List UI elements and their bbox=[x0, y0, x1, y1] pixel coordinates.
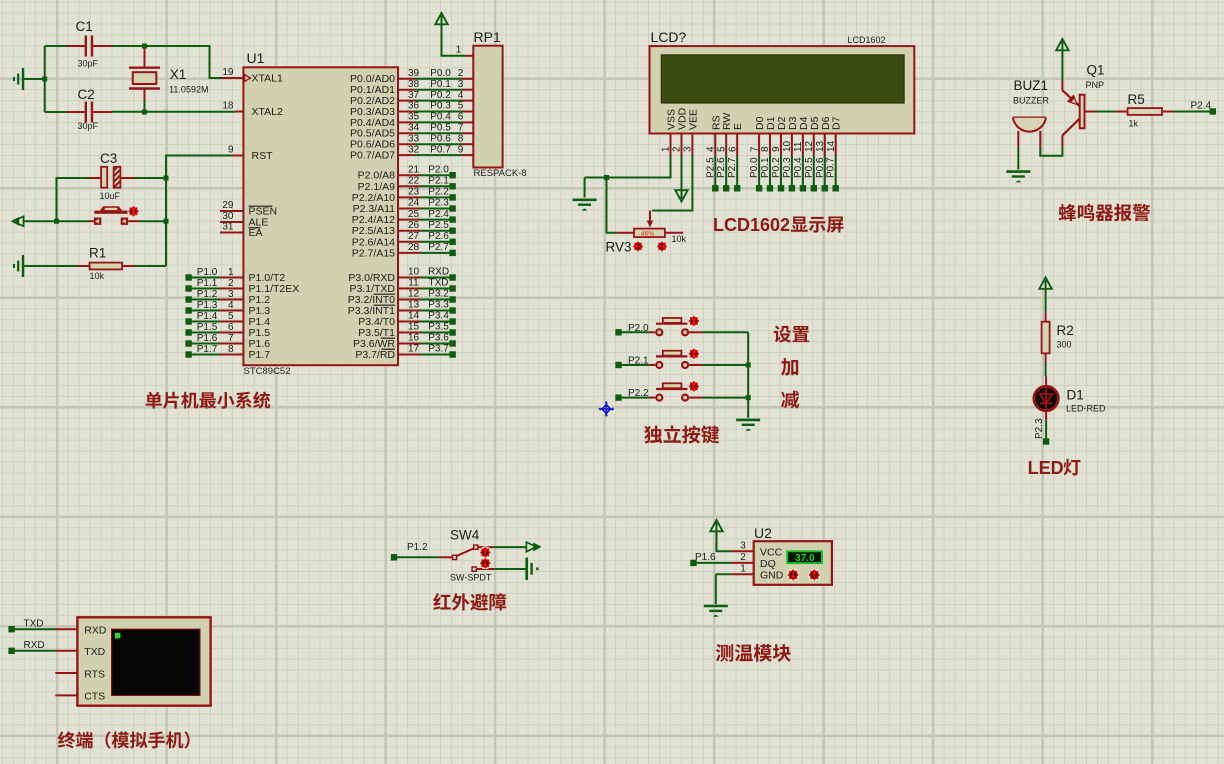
resistor R5 bbox=[1096, 92, 1173, 129]
svg-text:P1.6: P1.6 bbox=[197, 333, 218, 344]
pin 21 net P2.0 bbox=[398, 164, 456, 178]
svg-text:1: 1 bbox=[456, 45, 462, 56]
svg-text:Q1: Q1 bbox=[1087, 63, 1105, 78]
svg-text:DQ: DQ bbox=[760, 558, 776, 570]
svg-text:BUZ1: BUZ1 bbox=[1014, 78, 1049, 93]
caption 加 bbox=[781, 358, 798, 376]
svg-text:RXD: RXD bbox=[24, 640, 45, 651]
ground bbox=[14, 255, 78, 277]
node bbox=[42, 77, 47, 82]
svg-text:14: 14 bbox=[408, 311, 420, 322]
svg-text:P3.2: P3.2 bbox=[428, 289, 449, 300]
svg-text:16: 16 bbox=[408, 333, 420, 344]
LCD display LCD1602 bbox=[650, 29, 915, 156]
push button net P2.1 bbox=[615, 351, 702, 368]
svg-text:37.0: 37.0 bbox=[795, 553, 815, 564]
pin 7 net P1.6 bbox=[185, 333, 243, 347]
ground bbox=[14, 68, 45, 90]
wire bbox=[45, 45, 67, 47]
interactive star bbox=[689, 348, 700, 359]
svg-text:RTS: RTS bbox=[84, 669, 105, 681]
buzzer BUZ1 bbox=[1013, 78, 1050, 147]
svg-text:P1.2: P1.2 bbox=[197, 289, 218, 300]
svg-text:CTS: CTS bbox=[84, 691, 105, 703]
pin 22 net P2.1 bbox=[398, 176, 456, 190]
node bbox=[746, 395, 751, 400]
svg-text:2: 2 bbox=[740, 552, 746, 563]
svg-text:P2.2: P2.2 bbox=[428, 187, 449, 198]
capacitor C1 bbox=[67, 19, 112, 69]
interactive marks bbox=[633, 241, 667, 251]
svg-text:30: 30 bbox=[222, 211, 234, 222]
svg-text:P0.4: P0.4 bbox=[430, 112, 451, 123]
svg-text:27: 27 bbox=[408, 231, 420, 242]
push button net P2.2 bbox=[615, 383, 702, 401]
svg-text:30pF: 30pF bbox=[78, 59, 99, 69]
pin 3 VCC wire bbox=[732, 541, 754, 552]
switch SW4 SPDT bbox=[439, 528, 495, 583]
interactive star bbox=[128, 206, 139, 217]
wire net P2.6 bbox=[716, 156, 729, 192]
svg-text:300: 300 bbox=[1057, 340, 1072, 350]
svg-text:P2.7: P2.7 bbox=[727, 157, 738, 178]
wire bbox=[112, 45, 145, 47]
wire net P0.6 pin 33 to RP1 pin 8 bbox=[398, 133, 473, 144]
svg-text:C1: C1 bbox=[76, 19, 93, 34]
svg-text:P2.1: P2.1 bbox=[628, 356, 649, 367]
pin 31 bbox=[220, 222, 243, 233]
svg-text:C2: C2 bbox=[78, 87, 95, 102]
power bbox=[435, 13, 466, 56]
svg-text:10: 10 bbox=[782, 140, 793, 152]
svg-text:4: 4 bbox=[228, 300, 234, 311]
svg-text:P1.4: P1.4 bbox=[197, 311, 218, 322]
svg-text:P2.6: P2.6 bbox=[428, 231, 449, 242]
svg-text:25: 25 bbox=[408, 209, 420, 220]
svg-text:LCD1602: LCD1602 bbox=[713, 215, 790, 235]
svg-text:38: 38 bbox=[408, 79, 420, 90]
wire bbox=[145, 46, 222, 78]
pin 24 net P2.3 bbox=[398, 198, 456, 212]
interactive marks bbox=[480, 547, 491, 568]
svg-text:5: 5 bbox=[458, 101, 464, 112]
svg-text:3: 3 bbox=[458, 79, 464, 90]
ground bbox=[704, 574, 728, 617]
wire bbox=[703, 364, 749, 366]
wire net P0.0 bbox=[749, 156, 762, 192]
svg-text:P1.3: P1.3 bbox=[197, 300, 218, 311]
capacitor C2 bbox=[67, 87, 112, 131]
wire net P0.5 bbox=[804, 156, 817, 192]
svg-text:21: 21 bbox=[408, 164, 420, 175]
power bbox=[1056, 39, 1068, 80]
wire net P0.6 bbox=[815, 156, 828, 192]
resistor pack RP1 bbox=[473, 29, 526, 179]
svg-text:36: 36 bbox=[408, 101, 420, 112]
svg-text:LCD?: LCD? bbox=[651, 29, 687, 45]
svg-text:RV3: RV3 bbox=[606, 240, 632, 255]
ground bbox=[1006, 146, 1030, 182]
svg-text:P3.7/RD: P3.7/RD bbox=[355, 349, 395, 361]
wire net P2.5 bbox=[705, 156, 718, 192]
svg-text:P1.0: P1.0 bbox=[197, 267, 218, 278]
svg-text:LED: LED bbox=[1028, 458, 1064, 478]
svg-text:5: 5 bbox=[228, 311, 234, 322]
pin 17 net P3.7 bbox=[398, 344, 456, 358]
caption 蜂鸣器报警 bbox=[1059, 204, 1151, 221]
svg-text:8: 8 bbox=[458, 133, 464, 144]
svg-text:PNP: PNP bbox=[1086, 80, 1105, 90]
svg-text:VCC: VCC bbox=[760, 547, 783, 559]
svg-text:12: 12 bbox=[408, 289, 420, 300]
svg-text:P0.3: P0.3 bbox=[782, 157, 793, 178]
wire bbox=[166, 156, 232, 267]
svg-text:D7: D7 bbox=[831, 116, 843, 130]
svg-text:RST: RST bbox=[252, 150, 274, 162]
ground bbox=[573, 178, 597, 211]
wire net P0.3 pin 36 to RP1 pin 5 bbox=[398, 101, 473, 112]
svg-text:7: 7 bbox=[458, 123, 464, 134]
svg-text:P0.7: P0.7 bbox=[430, 144, 451, 155]
svg-text:2: 2 bbox=[228, 278, 234, 289]
svg-text:P2.7: P2.7 bbox=[428, 242, 449, 253]
terminal net P1.2 bbox=[391, 542, 439, 561]
ground bbox=[736, 420, 760, 431]
wire bbox=[135, 265, 166, 267]
pin 19 bbox=[221, 67, 243, 78]
svg-text:18: 18 bbox=[222, 101, 234, 112]
svg-text:P2.0: P2.0 bbox=[428, 164, 449, 175]
wire bbox=[140, 220, 166, 222]
svg-text:23: 23 bbox=[408, 187, 420, 198]
svg-text:11: 11 bbox=[408, 278, 419, 289]
svg-text:VEE: VEE bbox=[687, 109, 699, 130]
svg-text:P0.3: P0.3 bbox=[430, 101, 451, 112]
svg-text:46%: 46% bbox=[641, 231, 654, 238]
terminal arrow bbox=[11, 216, 24, 226]
svg-text:TXD: TXD bbox=[429, 278, 449, 289]
svg-text:P2.5: P2.5 bbox=[428, 220, 449, 231]
pin 27 net P2.6 bbox=[398, 231, 456, 245]
wire net P0.1 bbox=[760, 156, 773, 192]
wire net P0.2 pin 37 to RP1 pin 4 bbox=[398, 90, 473, 101]
resistor R2 bbox=[1042, 313, 1074, 362]
svg-text:BUZZER: BUZZER bbox=[1013, 96, 1050, 106]
node bbox=[142, 44, 147, 49]
svg-text:28: 28 bbox=[408, 242, 420, 253]
ground bbox=[527, 558, 538, 580]
svg-text:X1: X1 bbox=[170, 67, 187, 82]
pin 4 net P1.3 bbox=[185, 300, 243, 314]
pin 1 bbox=[456, 45, 474, 56]
svg-text:U1: U1 bbox=[247, 50, 265, 66]
wire bbox=[652, 156, 692, 211]
svg-text:8: 8 bbox=[760, 146, 771, 152]
svg-text:D1: D1 bbox=[1067, 388, 1084, 403]
svg-text:29: 29 bbox=[222, 200, 234, 211]
svg-text:1: 1 bbox=[740, 563, 746, 574]
svg-text:7: 7 bbox=[749, 146, 760, 152]
svg-text:11.0592M: 11.0592M bbox=[169, 85, 208, 95]
wire bbox=[57, 178, 90, 221]
wire bbox=[495, 568, 526, 570]
caption 设置 bbox=[774, 326, 809, 343]
wire net P2.7 bbox=[727, 156, 740, 192]
caption 单片机最小系统 bbox=[146, 392, 271, 409]
svg-text:R2: R2 bbox=[1057, 323, 1074, 338]
caption 减 bbox=[781, 391, 799, 409]
pin RTS stub bbox=[55, 672, 77, 674]
pin 8 net P1.7 bbox=[185, 344, 243, 358]
svg-text:EA: EA bbox=[249, 227, 263, 239]
svg-text:GND: GND bbox=[760, 570, 784, 582]
svg-text:P3.6: P3.6 bbox=[428, 333, 449, 344]
svg-text:4: 4 bbox=[706, 146, 717, 152]
svg-text:32: 32 bbox=[408, 144, 420, 155]
pin 15 net P3.5 bbox=[398, 322, 456, 336]
power bbox=[710, 520, 732, 551]
pin 23 net P2.2 bbox=[398, 187, 456, 201]
wire bbox=[494, 542, 542, 552]
wire net P2.4 bbox=[1173, 101, 1216, 115]
svg-text:P3.5: P3.5 bbox=[428, 322, 449, 333]
terminal net P1.6 bbox=[690, 552, 732, 566]
svg-text:C3: C3 bbox=[100, 151, 117, 166]
caption 独立按键 bbox=[644, 425, 719, 443]
svg-text:22: 22 bbox=[408, 176, 420, 187]
svg-text:10k: 10k bbox=[90, 271, 105, 281]
node bbox=[604, 175, 609, 180]
svg-text:37: 37 bbox=[408, 90, 420, 101]
pin 25 net P2.4 bbox=[398, 209, 456, 223]
svg-text:4: 4 bbox=[458, 90, 464, 101]
wire net P0.5 pin 34 to RP1 pin 7 bbox=[398, 123, 473, 134]
svg-text:P2.7/A15: P2.7/A15 bbox=[352, 247, 395, 259]
wire bbox=[703, 331, 749, 333]
svg-text:P0.0: P0.0 bbox=[430, 68, 451, 79]
svg-text:19: 19 bbox=[222, 67, 234, 78]
wiper bbox=[647, 211, 654, 228]
pin 26 net P2.5 bbox=[398, 220, 456, 234]
svg-text:2: 2 bbox=[458, 68, 464, 79]
svg-text:STC89C52: STC89C52 bbox=[244, 366, 291, 377]
svg-text:30pF: 30pF bbox=[78, 121, 99, 131]
svg-text:LED-RED: LED-RED bbox=[1066, 404, 1106, 414]
svg-text:P2.3: P2.3 bbox=[428, 198, 449, 209]
interactive star bbox=[689, 381, 700, 392]
wire net P0.2 bbox=[771, 156, 784, 192]
svg-text:P0.1: P0.1 bbox=[430, 79, 451, 90]
svg-text:XTAL2: XTAL2 bbox=[252, 106, 283, 118]
svg-text:34: 34 bbox=[408, 123, 420, 134]
svg-text:P0.7/AD7: P0.7/AD7 bbox=[350, 150, 395, 162]
svg-text:17: 17 bbox=[408, 344, 420, 355]
pin 2 net P1.1 bbox=[185, 278, 243, 292]
pin 13 net P3.3 bbox=[398, 300, 456, 314]
svg-text:P0.2: P0.2 bbox=[771, 157, 782, 178]
pin 9 bbox=[228, 145, 243, 156]
svg-text:P2.5: P2.5 bbox=[705, 157, 716, 178]
svg-text:35: 35 bbox=[408, 112, 420, 123]
node bbox=[142, 110, 147, 115]
terminal net RXD bbox=[8, 640, 77, 654]
wire bbox=[716, 573, 732, 575]
svg-text:10uF: 10uF bbox=[100, 191, 121, 201]
wire net P0.7 pin 32 to RP1 pin 9 bbox=[398, 144, 473, 155]
wire bbox=[112, 111, 145, 113]
temperature module U2 DS18B20 bbox=[754, 525, 832, 585]
svg-text:P1.5: P1.5 bbox=[197, 322, 218, 333]
wire net P0.0 pin 39 to RP1 pin 2 bbox=[398, 68, 473, 79]
svg-text:P0.4: P0.4 bbox=[793, 157, 804, 178]
svg-text:9: 9 bbox=[771, 146, 782, 152]
pin 3 net P1.2 bbox=[185, 289, 243, 303]
caption 红外避障 bbox=[433, 593, 506, 611]
pin 14 net P3.4 bbox=[398, 311, 456, 325]
terminal net TXD bbox=[8, 619, 77, 633]
svg-text:3: 3 bbox=[228, 289, 234, 300]
wire bbox=[44, 46, 46, 112]
svg-text:RXD: RXD bbox=[84, 625, 107, 637]
wire net P0.7 bbox=[826, 156, 839, 192]
op-amp U1 microcontroller STC89C52 bbox=[243, 50, 398, 377]
svg-text:6: 6 bbox=[727, 146, 738, 152]
push button net P2.0 bbox=[615, 318, 702, 336]
crystal X1 bbox=[129, 46, 208, 100]
svg-text:P1.1: P1.1 bbox=[197, 278, 218, 289]
svg-text:P2.4: P2.4 bbox=[1191, 101, 1212, 112]
svg-text:9: 9 bbox=[228, 145, 234, 156]
svg-text:1: 1 bbox=[661, 146, 672, 152]
svg-text:P3.4: P3.4 bbox=[428, 311, 449, 322]
wire bbox=[703, 397, 749, 399]
svg-text:P0.6: P0.6 bbox=[430, 133, 451, 144]
svg-text:RP1: RP1 bbox=[474, 29, 501, 45]
wire bbox=[1040, 146, 1062, 156]
wire bbox=[45, 111, 67, 113]
wire net P2.3 bbox=[1034, 418, 1050, 445]
caption 终端（模拟手机） bbox=[58, 731, 190, 748]
caption 测温模块 bbox=[716, 644, 791, 662]
svg-text:P0.1: P0.1 bbox=[760, 157, 771, 178]
wire net P0.4 bbox=[793, 156, 806, 192]
svg-text:P0.0: P0.0 bbox=[749, 157, 760, 178]
svg-text:14: 14 bbox=[826, 140, 837, 152]
wire bbox=[607, 178, 617, 233]
resistor R1 bbox=[78, 246, 136, 282]
svg-text:E: E bbox=[732, 123, 744, 130]
interactive marks bbox=[788, 569, 820, 580]
interactive star bbox=[689, 316, 700, 327]
pin 1 GND wire bbox=[732, 563, 754, 574]
svg-text:P3.7: P3.7 bbox=[428, 344, 449, 355]
svg-text:TXD: TXD bbox=[84, 646, 105, 658]
wire net P0.4 pin 35 to RP1 pin 6 bbox=[398, 112, 473, 123]
pin 5 net P1.4 bbox=[185, 311, 243, 325]
svg-text:13: 13 bbox=[815, 140, 826, 152]
svg-text:10k: 10k bbox=[672, 234, 687, 244]
caption LED灯 bbox=[1028, 458, 1081, 478]
node bbox=[54, 219, 59, 224]
svg-text:3: 3 bbox=[740, 541, 746, 552]
svg-text:P0.6: P0.6 bbox=[815, 157, 826, 178]
svg-text:15: 15 bbox=[408, 322, 420, 333]
pin CTS stub bbox=[55, 694, 77, 696]
svg-text:TXD: TXD bbox=[24, 619, 44, 630]
wire net P0.1 pin 38 to RP1 pin 3 bbox=[398, 79, 473, 90]
svg-text:XTAL1: XTAL1 bbox=[252, 73, 283, 85]
svg-text:P0.2: P0.2 bbox=[430, 90, 451, 101]
svg-text:13: 13 bbox=[408, 300, 420, 311]
svg-text:26: 26 bbox=[408, 220, 420, 231]
push button bbox=[89, 206, 140, 225]
svg-text:P2.4: P2.4 bbox=[428, 209, 449, 220]
potentiometer RV3 bbox=[606, 229, 687, 255]
origin marker bbox=[598, 401, 614, 417]
svg-text:5: 5 bbox=[716, 146, 727, 152]
svg-text:P2.6: P2.6 bbox=[716, 157, 727, 178]
pin 11 net TXD bbox=[398, 278, 456, 292]
virtual terminal bbox=[77, 617, 210, 705]
capacitor C3 bbox=[89, 151, 134, 201]
pin 30 bbox=[220, 211, 243, 222]
svg-text:LCD1602: LCD1602 bbox=[848, 35, 886, 45]
svg-text:P0.7: P0.7 bbox=[826, 157, 837, 178]
svg-text:P2.3: P2.3 bbox=[1034, 418, 1045, 439]
svg-text:RXD: RXD bbox=[428, 267, 449, 278]
pin 16 net P3.6 bbox=[398, 333, 456, 347]
svg-text:24: 24 bbox=[408, 198, 420, 209]
pin 18 bbox=[222, 101, 243, 112]
node bbox=[164, 176, 169, 181]
pin 28 net P2.7 bbox=[398, 242, 456, 256]
svg-text:P2.1: P2.1 bbox=[428, 176, 449, 187]
svg-text:7: 7 bbox=[228, 333, 234, 344]
wire bbox=[1045, 362, 1047, 376]
wire net P0.3 bbox=[782, 156, 795, 192]
wire bbox=[23, 220, 90, 222]
svg-text:9: 9 bbox=[458, 144, 464, 155]
svg-text:RESPACK-8: RESPACK-8 bbox=[474, 168, 527, 179]
svg-text:U2: U2 bbox=[754, 525, 772, 541]
wire bbox=[585, 156, 671, 178]
svg-text:P1.7: P1.7 bbox=[197, 344, 218, 355]
svg-text:2: 2 bbox=[672, 146, 683, 152]
svg-text:R5: R5 bbox=[1128, 92, 1145, 107]
svg-text:31: 31 bbox=[222, 222, 234, 233]
svg-text:6: 6 bbox=[228, 322, 234, 333]
svg-text:P0.5: P0.5 bbox=[804, 157, 815, 178]
wire bbox=[747, 332, 749, 418]
svg-text:1k: 1k bbox=[1129, 119, 1139, 129]
svg-text:P0.5: P0.5 bbox=[430, 123, 451, 134]
svg-text:P2.0: P2.0 bbox=[628, 323, 649, 334]
svg-text:SW4: SW4 bbox=[450, 528, 480, 543]
svg-text:SW-SPDT: SW-SPDT bbox=[450, 573, 492, 583]
svg-text:P3.3: P3.3 bbox=[428, 300, 449, 311]
svg-text:R1: R1 bbox=[89, 246, 106, 261]
caption LCD1602显示屏 bbox=[713, 215, 844, 235]
node bbox=[164, 219, 169, 224]
svg-text:11: 11 bbox=[793, 141, 804, 152]
svg-text:10: 10 bbox=[408, 267, 420, 278]
LED D1 LED-RED bbox=[1034, 376, 1106, 420]
power bbox=[1039, 278, 1051, 313]
pin 2 DQ wire bbox=[732, 552, 754, 563]
node bbox=[746, 363, 751, 368]
power bbox=[675, 156, 687, 202]
svg-text:1: 1 bbox=[228, 267, 234, 278]
